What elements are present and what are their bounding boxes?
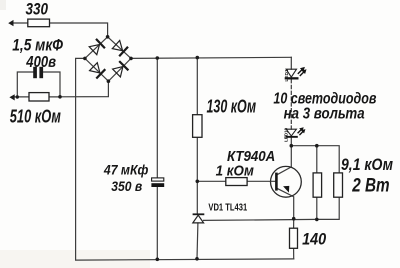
svg-text:LED1: LED1	[284, 69, 290, 82]
svg-text:1,5 мкФ: 1,5 мкФ	[12, 35, 63, 54]
svg-text:VD1 TL431: VD1 TL431	[208, 203, 247, 214]
svg-text:400в: 400в	[25, 54, 56, 71]
svg-text:47 мКф: 47 мКф	[103, 162, 148, 178]
svg-text:на 3 вольта: на 3 вольта	[284, 106, 365, 123]
svg-text:LED10: LED10	[283, 127, 288, 142]
svg-text:350 в: 350 в	[111, 178, 142, 194]
svg-text:330: 330	[26, 0, 49, 18]
svg-text:140: 140	[302, 229, 327, 248]
svg-text:1 кОм: 1 кОм	[216, 163, 255, 179]
svg-text:9,1 кОм: 9,1 кОм	[341, 156, 393, 174]
svg-text:2 Вт: 2 Вт	[351, 175, 389, 196]
svg-text:510 кОм: 510 кОм	[10, 106, 61, 126]
svg-text:130 кОм: 130 кОм	[207, 96, 257, 116]
